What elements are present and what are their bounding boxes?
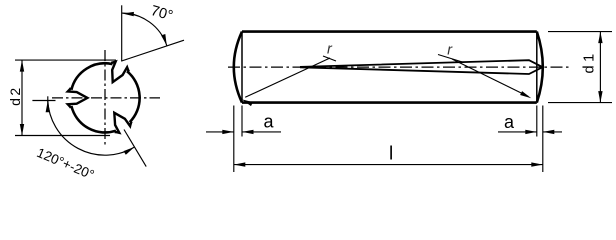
- side centerline: [228, 66, 569, 68]
- l arrow right: [531, 162, 543, 166]
- svg-text:d1: d1: [582, 50, 598, 73]
- groove taper lower line: [300, 67, 542, 74]
- groove notch top: [111, 62, 129, 82]
- groove taper upper line: [300, 60, 542, 67]
- l arrow left: [234, 162, 246, 166]
- d2 extension line bottom: [15, 135, 110, 137]
- 120deg dimension arc: [48, 101, 135, 155]
- right end chord: [536, 32, 538, 103]
- l dimension line: [234, 164, 543, 166]
- right end crown arc: [537, 32, 543, 103]
- d1 arrow up: [598, 32, 602, 43]
- horizontal centerline: [52, 97, 160, 99]
- groove notch bottom-right: [114, 113, 131, 133]
- d2 arrow down: [20, 124, 24, 136]
- a-left dimension line: [206, 131, 281, 133]
- top outline: [242, 30, 537, 33]
- a-right dimension line: [498, 131, 562, 133]
- r left arrow: [242, 99, 253, 106]
- leader line r left: [245, 58, 330, 97]
- r right arrow: [520, 91, 531, 98]
- d2 arrow up: [20, 60, 24, 72]
- bottom outline: [242, 101, 537, 104]
- 70deg arc arrow lower: [161, 34, 167, 46]
- d1 arrow down: [598, 91, 602, 103]
- a-right extension at crown tip: [542, 106, 544, 173]
- left end crown arc: [234, 32, 242, 103]
- 70deg arc arrow upper: [122, 12, 134, 16]
- d1 extension top: [548, 31, 612, 33]
- d1 dimension line: [599, 32, 601, 103]
- a-left extension at crown tip: [233, 106, 235, 173]
- 120deg extension tick: [47, 96, 49, 105]
- pin cross-section circle: [71, 63, 139, 132]
- left end chord: [241, 32, 243, 103]
- d2 extension line top: [15, 59, 116, 61]
- 70deg dimension arc: [122, 13, 167, 46]
- 120deg arc arrow right: [124, 147, 135, 155]
- svg-text:d2: d2: [7, 85, 23, 106]
- d1 extension bottom: [548, 102, 612, 104]
- left view cross-section: [52, 50, 160, 147]
- svg-text:l: l: [389, 144, 393, 165]
- a-left extension at chord: [241, 106, 243, 137]
- svg-text:a: a: [504, 112, 515, 132]
- 120deg extension line left: [32, 100, 55, 102]
- svg-text:a: a: [264, 111, 275, 131]
- vertical centerline: [104, 50, 106, 147]
- 70deg extension leg flank: [122, 40, 185, 61]
- 120deg extension line diagonal: [124, 130, 146, 167]
- a-right arrow pointing left: [543, 130, 555, 134]
- r right landing line: [438, 55, 464, 63]
- d2 dimension line: [21, 60, 23, 135]
- a-right arrow pointing right: [525, 130, 537, 134]
- a-right extension at chord: [536, 106, 538, 137]
- groove notch left: [68, 88, 88, 108]
- r left landing line: [323, 56, 336, 61]
- a-left arrow pointing right: [222, 130, 234, 134]
- 70deg extension leg vertical: [121, 5, 123, 61]
- 120deg arc arrow left: [46, 101, 50, 113]
- side view pin body: [228, 32, 569, 103]
- leader line r right: [452, 59, 528, 97]
- a-left arrow pointing left: [242, 130, 254, 134]
